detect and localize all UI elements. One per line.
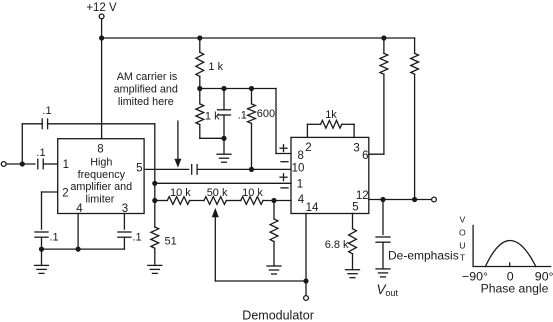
node bias bottom: [221, 136, 226, 141]
wire output to C7: [382, 200, 384, 235]
resistor R shunt to ground: [270, 219, 278, 242]
wire U2 pin6 stub: [369, 153, 384, 155]
resistor R 1k lower: [196, 104, 204, 125]
node bias-600: [249, 86, 254, 91]
svg-text:1: 1: [63, 159, 69, 171]
svg-text:5: 5: [136, 163, 142, 175]
arrow wiper head: [212, 208, 219, 217]
wire bias to U2 pin8: [275, 89, 277, 154]
polarity - pin4: [281, 187, 288, 189]
svg-text:frequency: frequency: [78, 169, 126, 181]
svg-text:1: 1: [297, 178, 303, 190]
node output-pullup: [412, 197, 417, 202]
wire feedback top right: [48, 123, 155, 125]
ground G4 shunt: [267, 265, 281, 267]
svg-text:2: 2: [305, 142, 311, 154]
svg-text:5: 5: [352, 201, 358, 213]
svg-text:.1: .1: [42, 105, 51, 117]
terminal output: [432, 197, 437, 202]
op-amp U1 high frequency amplifier box: [58, 139, 144, 214]
svg-text:O: O: [459, 227, 466, 237]
resistor R 1k U2 feedback: [306, 124, 308, 137]
wire U1 pin2 out: [42, 191, 58, 193]
svg-text:1 k: 1 k: [208, 61, 223, 73]
node bias-cap: [221, 86, 226, 91]
svg-text:amplifier and: amplifier and: [70, 181, 132, 193]
wire +12V stem: [101, 19, 103, 38]
node pin4 bottom: [76, 247, 81, 252]
wire row mid1: [190, 200, 204, 202]
wire C3 to U2 pin10: [197, 168, 291, 170]
node drop-resistor row: [152, 198, 157, 203]
svg-text:4: 4: [76, 203, 83, 215]
node bias-1k: [197, 86, 202, 91]
svg-text:.1: .1: [238, 109, 247, 121]
terminal demodulator output: [304, 296, 309, 301]
resistor R 600: [248, 104, 256, 123]
resistor R pull-up output: [411, 53, 419, 74]
op-amp U2 demodulator box: [291, 137, 369, 213]
wire top power rail: [102, 37, 415, 39]
ground G5 under 6.8k: [346, 269, 360, 271]
svg-text:Phase angle: Phase angle: [481, 282, 549, 296]
node wiper-pin14: [303, 278, 308, 283]
node rail-pin8: [99, 35, 104, 40]
capacitor C1 .1 feedback: [41, 119, 43, 129]
ground G2 under 51: [154, 248, 156, 265]
capacitor C5 .1 pin2 bypass: [35, 231, 48, 233]
svg-text:600: 600: [257, 108, 275, 120]
resistor R pull-up pin6: [380, 53, 388, 74]
svg-text:6: 6: [362, 150, 368, 162]
svg-text:10 k: 10 k: [242, 187, 263, 199]
wire row to U2 pin4: [263, 200, 291, 202]
node drop-pin1 line: [152, 181, 157, 186]
polarity - pin10: [281, 161, 288, 163]
node output-deemphasis: [380, 197, 385, 202]
wire U2 pin12 output line: [369, 199, 432, 201]
node input junction: [20, 161, 25, 166]
capacitor C2 .1 input coupling: [37, 159, 39, 169]
svg-text:3: 3: [353, 143, 359, 155]
svg-text:8: 8: [97, 143, 103, 155]
terminal +12V supply: [99, 14, 104, 19]
resistor R51 51 ohm: [151, 227, 159, 248]
svg-text:out: out: [385, 288, 398, 298]
resistor R 10k right: [241, 197, 263, 205]
wire row mid2: [226, 200, 240, 202]
wire wiper bottom: [215, 280, 306, 282]
wire feedback drop to 51 ohm: [154, 124, 156, 227]
node rail-right: [381, 35, 386, 40]
svg-text:1 k: 1 k: [205, 110, 220, 122]
svg-text:14: 14: [306, 202, 319, 214]
svg-text:V: V: [460, 214, 466, 224]
svg-text:.1: .1: [133, 231, 142, 243]
wire network to U2 pin1: [155, 182, 291, 184]
wire C2 to U1 pin1: [43, 163, 58, 165]
svg-text:Demodulator: Demodulator: [242, 309, 314, 322]
svg-text:De-emphasis: De-emphasis: [388, 248, 459, 262]
wire C7 to ground: [382, 242, 384, 269]
wire U1 pin4 down: [77, 214, 79, 250]
svg-text:51: 51: [165, 235, 177, 247]
svg-text:8: 8: [297, 150, 303, 162]
curve phase response: [485, 241, 535, 267]
wire U1 pin3 down: [123, 214, 125, 230]
graph tick at 0: [509, 263, 511, 267]
wire U1 pin5 out: [144, 168, 189, 170]
arrow AM-carrier pointer: [177, 121, 179, 159]
ground G3 bias: [223, 138, 225, 154]
svg-text:2: 2: [62, 188, 68, 200]
graph x-axis: [473, 266, 551, 268]
polarity + pin1: [280, 176, 287, 178]
capacitor C7 de-emphasis: [376, 236, 390, 238]
svg-text:1k: 1k: [325, 109, 337, 121]
node ground row left: [39, 247, 44, 252]
ground G6 under C7: [376, 268, 390, 270]
potentiometer R 50k: [204, 197, 226, 205]
svg-text:High: High: [90, 157, 112, 169]
polarity + pin8: [280, 147, 287, 149]
terminal signal input: [1, 162, 6, 167]
wire feedback top left: [22, 123, 42, 125]
wire bottom row: [42, 248, 125, 250]
svg-text:4: 4: [298, 194, 305, 206]
svg-text:.1: .1: [36, 147, 45, 159]
capacitor C3 coupling on pin5 line: [191, 165, 193, 175]
wire row start: [155, 200, 168, 202]
resistor R 10k left: [167, 197, 189, 205]
wire wiper shaft: [214, 217, 216, 282]
svg-text:U: U: [459, 240, 465, 250]
resistor R 6.8k: [349, 229, 357, 254]
svg-text:.1: .1: [50, 231, 59, 243]
svg-text:12: 12: [356, 190, 369, 202]
node row-shunt: [271, 198, 276, 203]
wire C5 to ground row: [41, 237, 43, 249]
svg-text:10: 10: [292, 163, 305, 175]
graph y-axis: [472, 225, 474, 266]
capacitor C6 .1 pin3 bypass: [118, 231, 131, 233]
wire 1k lower to cap node: [200, 137, 224, 139]
wire C6 to bottom row: [123, 237, 125, 249]
resistor R 1k upper: [196, 52, 204, 76]
wire input to cap C2: [6, 163, 35, 165]
wire bias row: [200, 88, 276, 90]
svg-text:AM carrier is: AM carrier is: [117, 71, 178, 83]
svg-text:T: T: [460, 252, 466, 262]
wire IC1 pin8 to rail: [101, 38, 103, 139]
ground G1: [41, 249, 43, 265]
svg-text:limiter: limiter: [86, 193, 115, 205]
svg-text:50 k: 50 k: [207, 187, 228, 199]
svg-text:amplified and: amplified and: [114, 83, 178, 95]
svg-text:limited here: limited here: [118, 96, 174, 108]
node rail-1k: [197, 35, 202, 40]
wire feedback riser: [21, 124, 23, 164]
svg-text:6.8 k: 6.8 k: [325, 239, 349, 251]
svg-text:10 k: 10 k: [170, 187, 191, 199]
wire pin2 down to C5: [41, 192, 43, 229]
node 600 bottom: [249, 167, 254, 172]
capacitor C4 .1 bias bypass: [218, 109, 231, 111]
svg-text:+12 V: +12 V: [86, 2, 117, 14]
wire to demodulator terminal: [305, 281, 307, 296]
wire U2 pin14 down: [305, 214, 307, 282]
